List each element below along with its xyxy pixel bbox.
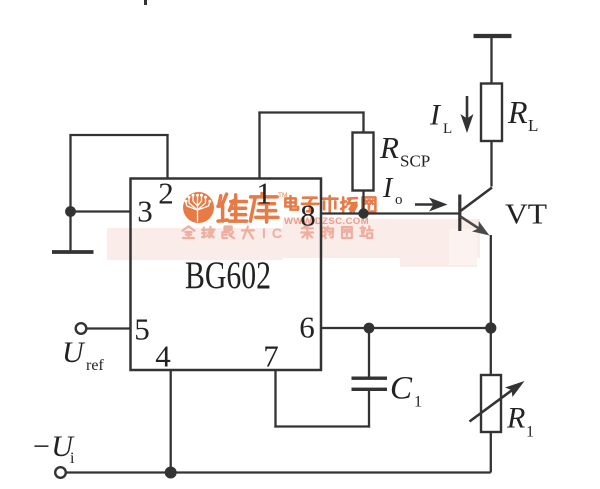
watermark text 全球最大IC采购网站: [183, 225, 373, 241]
arrow IL: [466, 96, 469, 122]
wire collector vertical: [490, 141, 492, 187]
transistor collector diagonal: [461, 188, 493, 212]
arrow R1 adjustable: [470, 387, 518, 422]
node junction RSCP/base wire: [358, 208, 368, 218]
wire pin4 vertical: [170, 370, 172, 473]
wire pin3 horizontal: [70, 210, 131, 212]
wire emitter vertical: [490, 235, 492, 328]
svg-text:R: R: [507, 94, 528, 130]
wire RSCP top lead: [362, 112, 364, 134]
watermark pink band: [107, 228, 283, 260]
capacitor C1: [352, 377, 388, 380]
svg-text:o: o: [395, 192, 403, 208]
wire C1 to pin7 horizontal: [274, 425, 370, 427]
svg-text:R: R: [379, 130, 399, 165]
wire loop top horizontal: [70, 134, 169, 136]
wire pin8 to base: [321, 212, 459, 214]
svg-text:6: 6: [299, 310, 315, 345]
svg-text:R: R: [506, 402, 525, 435]
wire pin2 to loop top: [166, 134, 168, 179]
node junction pin4/bottom rail: [165, 467, 177, 479]
wire RSCP bottom lead: [362, 191, 364, 215]
wire C1 top lead: [368, 328, 370, 377]
node junction pin3/ground: [65, 206, 76, 217]
svg-text:−U: −U: [31, 430, 75, 463]
wire C1 bottom lead: [368, 391, 370, 428]
power rail bar: [474, 34, 512, 38]
node junction pin6/C1: [364, 323, 375, 334]
terminal -Ui: [55, 467, 66, 478]
svg-text:ref: ref: [86, 357, 104, 374]
svg-text:VT: VT: [505, 199, 547, 231]
resistor RSCP: [353, 133, 374, 191]
wire bottom rail: [66, 471, 491, 473]
svg-text:I: I: [382, 173, 394, 204]
wire loop top to RSCP: [258, 111, 364, 113]
ground: [52, 250, 94, 254]
svg-text:5: 5: [134, 312, 150, 347]
watermark text 电子市场网: [285, 196, 375, 213]
svg-text:IC: IC: [262, 225, 288, 241]
watermark logo circle: [183, 192, 214, 223]
wire top edge stub: [144, 0, 147, 5]
resistor RL: [481, 84, 502, 142]
svg-text:4: 4: [155, 339, 171, 374]
svg-text:WWW.DZSC.COM: WWW.DZSC.COM: [284, 216, 369, 227]
svg-text:7: 7: [263, 339, 279, 374]
svg-text:1: 1: [414, 394, 422, 411]
transistor Q VT base bar: [458, 195, 461, 232]
resistor R1 adjustable: [481, 375, 501, 432]
svg-text:L: L: [443, 121, 452, 137]
wire R1 top lead: [490, 328, 492, 376]
wire loop left vertical: [69, 134, 71, 251]
arrow Io: [415, 203, 434, 206]
svg-text:1: 1: [526, 424, 534, 441]
svg-text:1: 1: [256, 176, 272, 211]
IC BG602 box: [131, 179, 322, 371]
svg-text:8: 8: [300, 198, 316, 233]
svg-text:L: L: [528, 116, 538, 135]
svg-text:i: i: [70, 450, 75, 467]
watermark text 维库: [218, 194, 278, 223]
transistor emitter diagonal with arrow: [461, 217, 484, 232]
svg-text:BG602: BG602: [185, 253, 271, 297]
svg-text:U: U: [62, 336, 86, 369]
svg-text:C: C: [390, 371, 413, 407]
wire pin5 horizontal: [86, 327, 131, 329]
node junction emitter/pin6/R1: [485, 322, 496, 333]
svg-text:2: 2: [158, 176, 174, 211]
wire rail to RL: [490, 38, 492, 84]
wire R1 bottom lead: [490, 432, 492, 473]
wire pin7 vertical: [274, 370, 276, 428]
terminal Uref: [76, 323, 87, 334]
svg-text:SCP: SCP: [400, 152, 430, 171]
wire pin6 horizontal: [321, 327, 491, 329]
svg-text:3: 3: [137, 194, 153, 229]
svg-text:I: I: [429, 99, 442, 132]
wire pin1 to loop top: [258, 112, 260, 179]
